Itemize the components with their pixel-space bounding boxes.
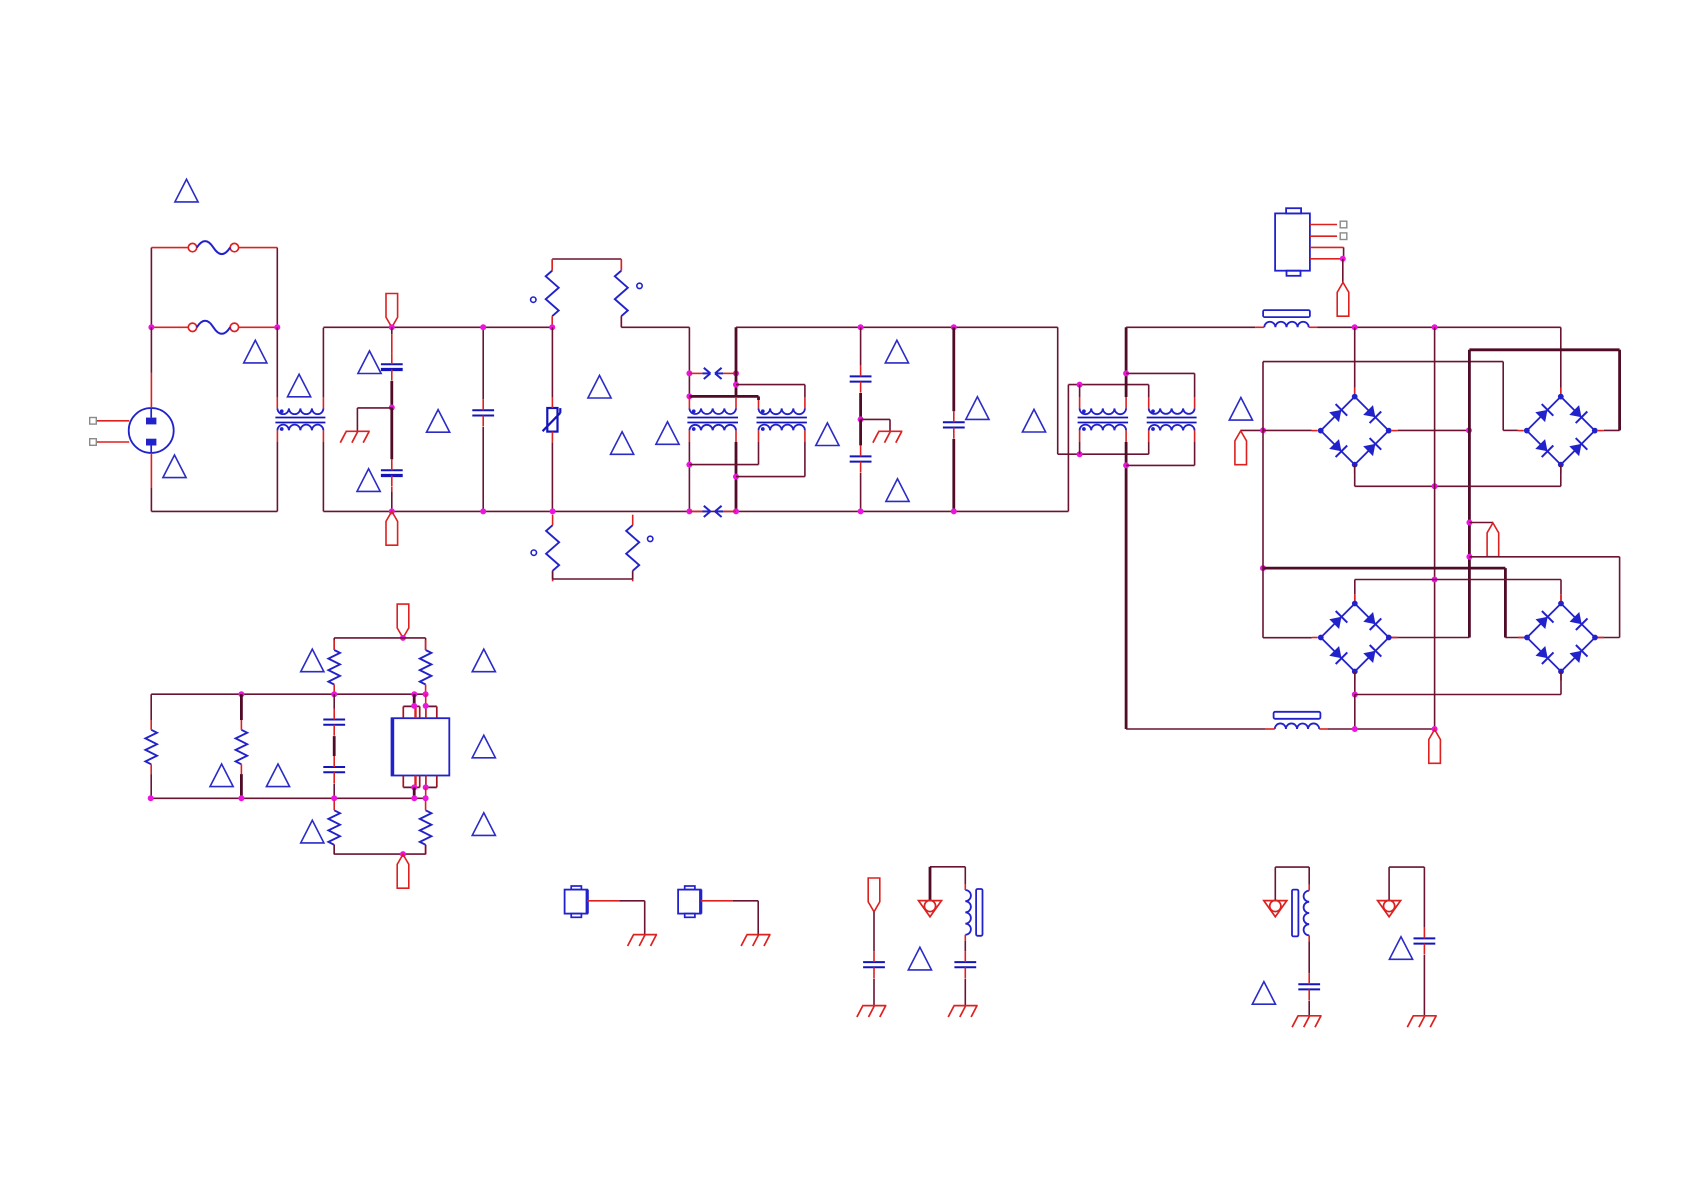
- junction: [858, 508, 864, 514]
- inductor L6: [1255, 310, 1317, 327]
- wire: [1262, 362, 1264, 431]
- spark gap E2: [689, 506, 736, 517]
- pin: [425, 776, 427, 788]
- chassis ground: [1264, 900, 1287, 916]
- junction: [1077, 382, 1083, 388]
- resistor R6: [420, 640, 432, 694]
- resistor R3: [546, 515, 559, 582]
- wire: [736, 476, 805, 478]
- common-mode choke L3: [757, 408, 807, 431]
- wire: [735, 442, 738, 511]
- junction: [480, 508, 486, 514]
- triangle marker: [472, 735, 495, 758]
- power flag: [397, 854, 409, 888]
- pin: [322, 430, 324, 442]
- unconnected pin: [1340, 221, 1347, 228]
- ground: [857, 1006, 887, 1017]
- wire: [551, 327, 553, 397]
- resistor R4: [626, 515, 639, 582]
- wire: [859, 393, 862, 419]
- wire: [1469, 348, 1619, 351]
- capacitor C6: [943, 411, 965, 438]
- pin: [1194, 397, 1196, 408]
- pin: [1194, 430, 1196, 442]
- ground: [628, 935, 658, 946]
- wire: [150, 774, 152, 798]
- wire: [356, 408, 358, 431]
- pin: [758, 400, 760, 408]
- wire: [1469, 556, 1619, 558]
- wire: [402, 776, 404, 788]
- wire: [964, 941, 966, 951]
- wire: [390, 408, 393, 460]
- wire: [804, 442, 806, 477]
- pin: [276, 430, 278, 442]
- resistor R5: [328, 640, 340, 694]
- power flag: [1235, 431, 1247, 465]
- wire: [276, 327, 278, 397]
- wire: [1354, 465, 1356, 487]
- pin: [1125, 397, 1127, 408]
- wire: [1502, 362, 1504, 431]
- triangle marker: [244, 340, 267, 363]
- junction: [1352, 324, 1358, 330]
- common-mode choke L1: [275, 408, 325, 431]
- wire: [1058, 453, 1149, 455]
- wire: [552, 258, 621, 260]
- ground: [873, 431, 903, 442]
- junction: [951, 324, 957, 330]
- wire: [1263, 429, 1312, 431]
- junction: [238, 691, 244, 697]
- wire: [1423, 955, 1425, 1015]
- resistor R2: [615, 260, 628, 327]
- wire: [1619, 557, 1621, 638]
- pin: [425, 706, 427, 718]
- common-mode choke L4: [1078, 408, 1129, 431]
- fuse F1: [151, 241, 277, 254]
- pin: [620, 259, 622, 271]
- junction: [148, 795, 154, 801]
- spark gap E1: [689, 368, 736, 379]
- wire: [403, 786, 419, 788]
- triangle marker: [358, 351, 381, 374]
- wire: [240, 694, 243, 720]
- wire: [1354, 695, 1356, 730]
- fuse F2: [151, 321, 277, 334]
- power flag: [1487, 523, 1499, 557]
- junction: [1432, 577, 1438, 583]
- pin: [1354, 594, 1356, 603]
- wire: [735, 327, 738, 397]
- wire: [551, 443, 553, 512]
- wire: [1468, 350, 1471, 638]
- junction: [1466, 554, 1472, 560]
- triangle marker: [163, 455, 186, 478]
- wire: [333, 638, 335, 650]
- IC U1: [392, 718, 450, 775]
- junction: [1352, 726, 1358, 732]
- junction: [686, 393, 692, 399]
- junction: [1466, 427, 1472, 433]
- wire: [1560, 327, 1562, 387]
- wire: [1328, 728, 1435, 730]
- pin dot: [531, 550, 536, 555]
- pin dot: [531, 297, 536, 302]
- capacitor C5: [850, 445, 872, 472]
- wire: [758, 442, 760, 465]
- wire: [929, 867, 932, 901]
- wire: [425, 845, 427, 854]
- wire: [1274, 867, 1276, 900]
- wire: [1389, 866, 1424, 868]
- wire: [333, 784, 335, 799]
- wire: [1308, 867, 1310, 885]
- junction: [1123, 462, 1129, 468]
- wire: [1308, 941, 1310, 973]
- pin: [276, 397, 278, 408]
- wire: [436, 776, 438, 788]
- wire: [322, 328, 324, 397]
- wire: [1057, 327, 1059, 454]
- junction: [733, 508, 739, 514]
- power flag: [386, 294, 398, 328]
- junction: [1123, 370, 1129, 376]
- wire: [391, 327, 393, 334]
- wire: [333, 736, 336, 756]
- wire: [1263, 567, 1505, 570]
- wire: [1503, 429, 1518, 431]
- pin: [1079, 397, 1081, 408]
- wire: [861, 418, 890, 420]
- AC plug P1: [96, 408, 173, 453]
- triangle marker: [472, 813, 495, 836]
- triangle marker: [1229, 398, 1252, 421]
- wire: [1434, 327, 1436, 729]
- chassis ground: [919, 900, 942, 916]
- triangle marker: [301, 820, 324, 843]
- pin dot: [637, 283, 642, 288]
- wire: [1308, 1001, 1310, 1016]
- wire: [391, 334, 393, 353]
- junction: [1352, 692, 1358, 698]
- wire: [1126, 326, 1255, 328]
- wire: [402, 706, 404, 718]
- triangle marker: [908, 947, 931, 970]
- wire: [334, 637, 425, 639]
- wire: [323, 510, 1068, 512]
- resistor R9: [328, 801, 340, 855]
- wire: [1560, 580, 1562, 595]
- capacitor C10: [954, 951, 976, 978]
- junction: [411, 703, 417, 709]
- wire: [419, 776, 421, 788]
- wire: [426, 705, 437, 707]
- bridge rectifier D4: [1518, 595, 1604, 681]
- capacitor C1: [381, 353, 403, 380]
- junction: [148, 324, 154, 330]
- wire: [390, 381, 393, 408]
- wire: [873, 979, 875, 1006]
- junction: [1432, 726, 1438, 732]
- junction: [686, 508, 692, 514]
- unconnected pin: [90, 418, 97, 425]
- wire: [1262, 430, 1264, 637]
- junction: [1077, 451, 1083, 457]
- wire: [425, 787, 427, 798]
- wire: [1125, 442, 1128, 729]
- junction: [331, 795, 337, 801]
- inductor L9: [1292, 885, 1309, 942]
- capacitor C12: [1414, 927, 1436, 954]
- capacitor C3: [472, 399, 494, 426]
- wire: [151, 797, 426, 799]
- wire: [403, 705, 419, 707]
- pin: [688, 397, 690, 408]
- triangle marker: [588, 375, 611, 398]
- pin dot: [648, 536, 653, 541]
- wire: [1263, 637, 1312, 639]
- wire: [644, 901, 646, 934]
- wire: [413, 787, 416, 798]
- wire: [952, 327, 955, 411]
- wire: [334, 853, 425, 855]
- unconnected pin: [1340, 233, 1347, 240]
- wire: [150, 327, 152, 373]
- wire: [276, 248, 278, 328]
- junction: [1260, 565, 1266, 571]
- wire: [1435, 579, 1561, 581]
- wire: [1398, 429, 1469, 431]
- capacitor C7: [323, 709, 345, 736]
- pin: [735, 397, 737, 408]
- shield fixture: [678, 886, 733, 917]
- wire: [964, 979, 966, 1006]
- triangle marker: [611, 432, 634, 455]
- wire: [482, 427, 484, 511]
- junction: [423, 703, 429, 709]
- wire: [860, 327, 862, 365]
- wire: [1148, 385, 1150, 397]
- wire: [733, 900, 759, 902]
- triangle marker: [1022, 409, 1045, 432]
- wire: [1079, 385, 1081, 397]
- wire: [240, 774, 243, 798]
- wire: [1148, 442, 1150, 454]
- bridge rectifier D3: [1312, 595, 1398, 681]
- wire: [1618, 350, 1621, 431]
- junction: [411, 691, 417, 697]
- junction: [400, 635, 406, 641]
- ground: [1292, 1016, 1322, 1027]
- wire: [1126, 728, 1266, 730]
- wire: [1355, 485, 1561, 487]
- triangle marker: [427, 410, 450, 433]
- triangle marker: [966, 397, 989, 420]
- junction: [274, 324, 280, 330]
- junction: [400, 851, 406, 857]
- resistor R1: [546, 260, 559, 327]
- junction: [858, 324, 864, 330]
- pin: [414, 776, 416, 788]
- wire: [621, 326, 689, 328]
- ground: [340, 431, 370, 442]
- wire: [736, 384, 805, 386]
- wire: [1504, 568, 1507, 637]
- wire: [357, 407, 391, 409]
- wire: [1594, 637, 1619, 639]
- common-mode choke L2: [687, 408, 738, 431]
- junction: [423, 691, 429, 697]
- triangle marker: [1252, 982, 1275, 1005]
- junction: [411, 795, 417, 801]
- triangle marker: [656, 422, 679, 445]
- wire: [860, 473, 862, 511]
- wire: [859, 419, 862, 445]
- pin: [735, 430, 737, 442]
- junction: [733, 370, 739, 376]
- common-mode choke L5: [1147, 408, 1197, 431]
- triangle marker: [301, 649, 324, 672]
- pin: [1148, 397, 1150, 408]
- wire: [688, 442, 690, 511]
- junction: [1340, 256, 1346, 262]
- wire: [688, 327, 690, 397]
- resistor R7: [145, 720, 157, 774]
- wire: [1241, 429, 1263, 431]
- wire: [276, 442, 278, 511]
- bridge rectifier D1: [1312, 388, 1398, 474]
- wire: [1343, 247, 1345, 258]
- wire: [150, 248, 152, 328]
- wire: [1126, 464, 1195, 466]
- junction: [389, 324, 395, 330]
- wire: [150, 694, 152, 720]
- junction: [858, 416, 864, 422]
- ground: [741, 935, 771, 946]
- wire: [426, 786, 437, 788]
- junction: [238, 795, 244, 801]
- triangle marker: [1389, 937, 1412, 960]
- pin: [804, 430, 806, 442]
- junction: [423, 795, 429, 801]
- triangle marker: [886, 479, 909, 502]
- wire: [1560, 672, 1562, 695]
- wire: [1389, 637, 1470, 639]
- pin: [758, 430, 760, 442]
- pin: [1079, 430, 1081, 442]
- triangle marker: [266, 764, 289, 787]
- wire: [552, 571, 554, 579]
- wire: [873, 912, 875, 951]
- wire: [1354, 672, 1356, 695]
- wire: [1194, 373, 1196, 397]
- junction: [733, 382, 739, 388]
- junction: [1432, 324, 1438, 330]
- varistor RV1: [543, 397, 561, 443]
- wire: [1342, 259, 1344, 283]
- inductor L7: [1266, 712, 1328, 729]
- wire: [482, 327, 484, 399]
- wire: [391, 492, 393, 511]
- shield fixture: [565, 886, 620, 917]
- power flag: [386, 511, 398, 545]
- junction: [951, 508, 957, 514]
- capacitor C4: [850, 365, 872, 392]
- pin: [1560, 388, 1562, 397]
- pin: [551, 259, 553, 271]
- wire: [930, 866, 965, 868]
- junction: [1260, 427, 1266, 433]
- pin: [1354, 388, 1356, 397]
- wire: [413, 694, 416, 706]
- wire: [391, 487, 393, 492]
- capacitor C8: [323, 756, 345, 783]
- power flag: [868, 878, 880, 912]
- wire: [1355, 694, 1561, 696]
- junction: [1466, 520, 1472, 526]
- ground: [948, 1006, 978, 1017]
- wire: [1355, 579, 1435, 581]
- wire: [1318, 326, 1561, 328]
- pin: [322, 397, 324, 408]
- junction: [480, 324, 486, 330]
- wire: [1125, 327, 1128, 397]
- pin: [688, 430, 690, 442]
- triangle marker: [885, 340, 908, 363]
- capacitor C11: [1298, 973, 1320, 1000]
- power flag: [1429, 730, 1441, 764]
- triangle marker: [816, 423, 839, 446]
- triangle marker: [472, 649, 495, 672]
- junction: [549, 324, 555, 330]
- wire: [1505, 637, 1527, 639]
- resistor R10: [420, 801, 432, 855]
- wire: [804, 385, 806, 397]
- wire: [425, 694, 427, 706]
- junction: [389, 405, 395, 411]
- wire: [1067, 385, 1069, 512]
- wire: [151, 510, 277, 512]
- wire: [150, 488, 152, 511]
- wire: [322, 442, 324, 511]
- junction: [686, 370, 692, 376]
- triangle marker: [357, 469, 380, 492]
- wire: [952, 439, 955, 512]
- wire: [1388, 867, 1390, 900]
- pin: [1148, 430, 1150, 442]
- power flag: [397, 604, 409, 638]
- wire: [1423, 867, 1425, 927]
- wire: [553, 578, 633, 580]
- ground: [1407, 1016, 1437, 1027]
- wire: [1194, 442, 1196, 465]
- wire: [150, 373, 152, 408]
- wire: [1079, 442, 1081, 454]
- wire: [889, 419, 891, 431]
- junction: [423, 784, 429, 790]
- chassis ground: [1378, 900, 1401, 916]
- wire: [1068, 384, 1148, 386]
- capacitor C2: [381, 459, 403, 486]
- bridge rectifier D2: [1518, 388, 1604, 474]
- wire: [1469, 522, 1493, 524]
- wire: [689, 464, 758, 466]
- junction: [331, 691, 337, 697]
- junction: [411, 784, 417, 790]
- wire: [150, 453, 152, 488]
- triangle marker: [210, 764, 233, 787]
